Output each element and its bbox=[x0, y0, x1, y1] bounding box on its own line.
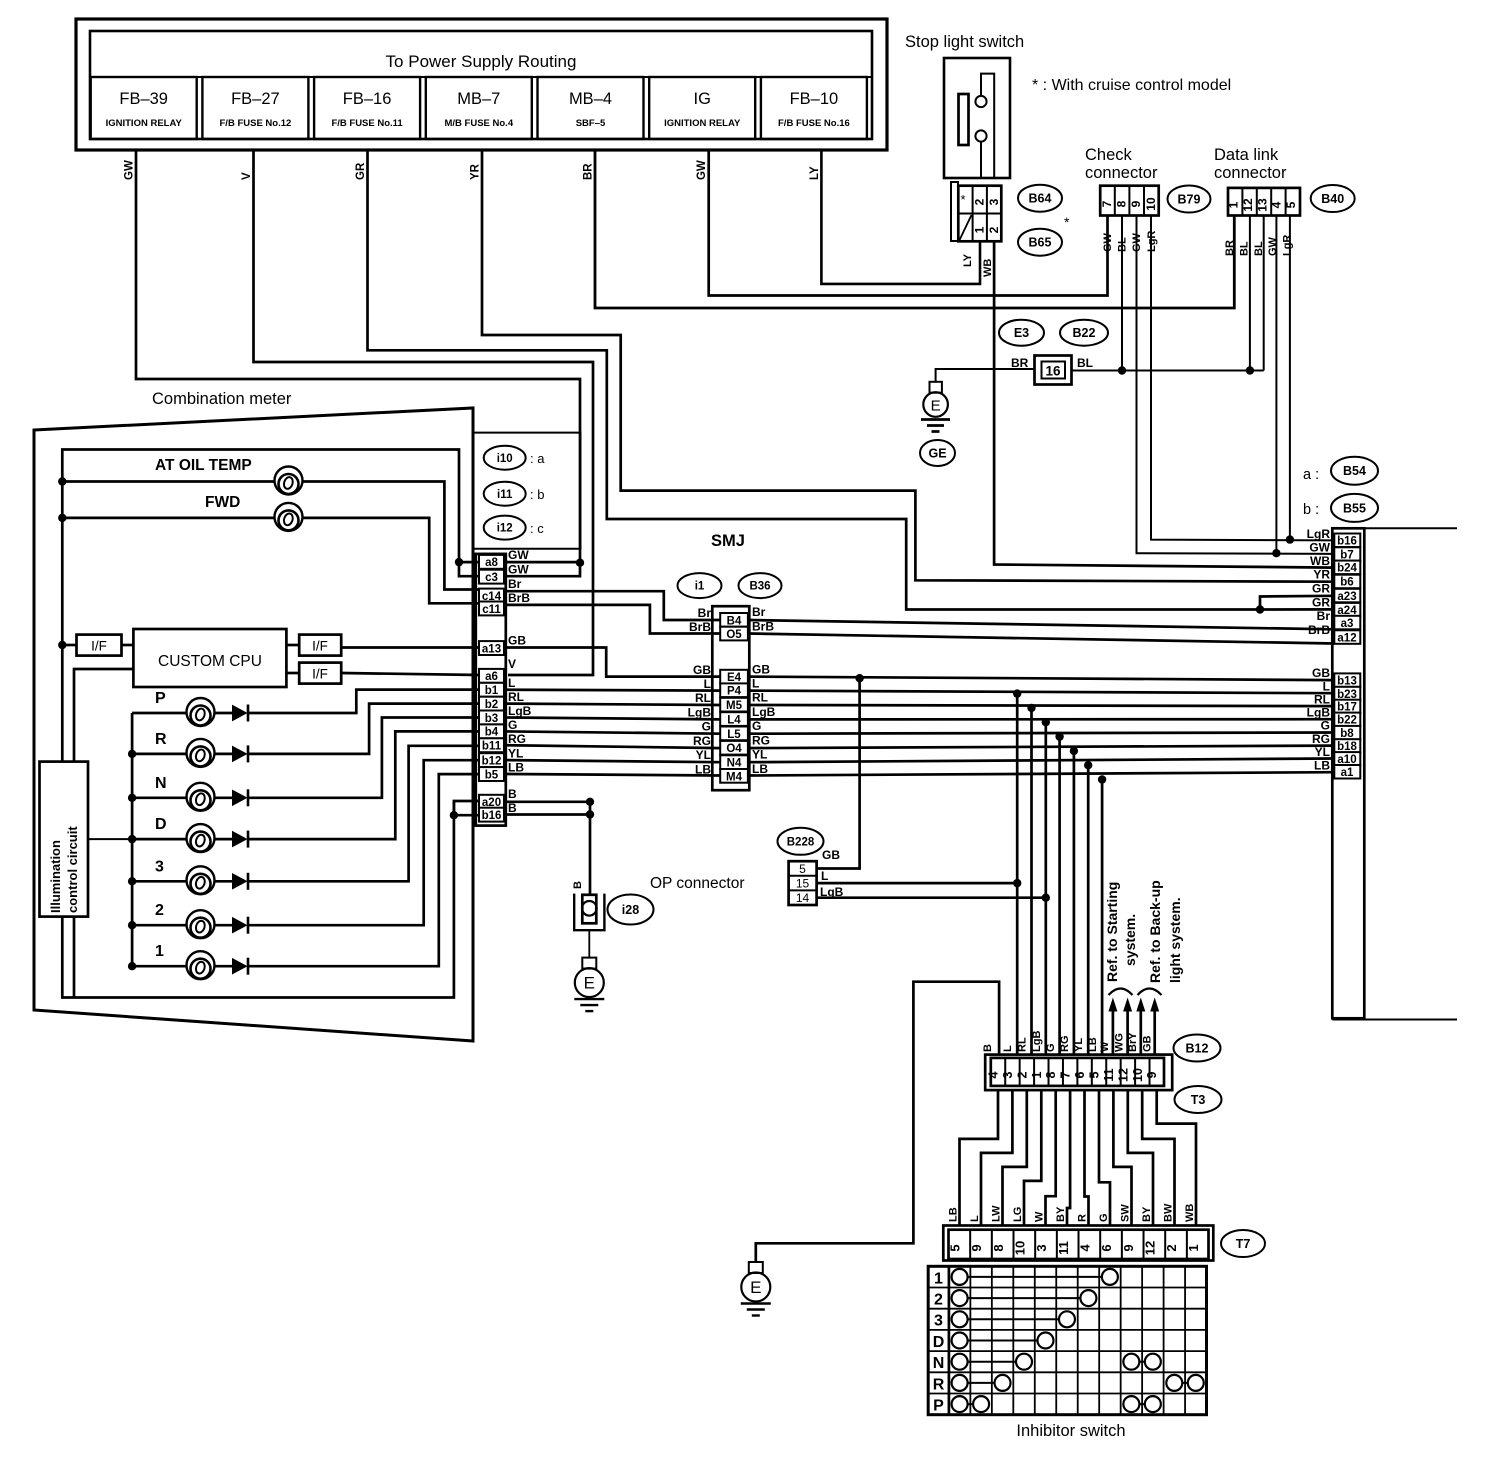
svg-text:5: 5 bbox=[799, 862, 806, 876]
svg-text:G: G bbox=[1045, 1043, 1057, 1052]
wire data link pin 4 GW bbox=[1275, 216, 1277, 554]
junction a8/c3 internal bbox=[455, 558, 463, 566]
svg-text:c11: c11 bbox=[482, 604, 501, 616]
lamp D bbox=[187, 824, 215, 852]
diode R bbox=[233, 745, 249, 762]
wire B down to lamp i28 bbox=[589, 802, 592, 894]
wire RG drop to B12 bbox=[1073, 751, 1076, 1055]
svg-text:1: 1 bbox=[1186, 1244, 1201, 1251]
svg-text:system.: system. bbox=[1122, 914, 1138, 966]
svg-text:V: V bbox=[508, 657, 516, 671]
wire meter to SMJ row bbox=[504, 760, 722, 762]
wire P row bbox=[132, 712, 186, 715]
wire data link pin 12 BL bbox=[1249, 216, 1251, 371]
junction GW power bbox=[576, 559, 584, 567]
svg-text:b7: b7 bbox=[1340, 549, 1353, 561]
terminal b12 bbox=[479, 753, 504, 767]
svg-text:CUSTOM CPU: CUSTOM CPU bbox=[158, 653, 262, 670]
illumination control circuit box bbox=[40, 762, 89, 917]
svg-text:a :: a : bbox=[1303, 467, 1319, 483]
svg-text:B12: B12 bbox=[1186, 1042, 1209, 1056]
wire V from FB-27 bbox=[254, 150, 594, 675]
svg-text:E4: E4 bbox=[727, 672, 742, 684]
svg-text:LgR: LgR bbox=[1282, 235, 1294, 256]
junction b16 B bbox=[450, 811, 458, 819]
connector id B64 bbox=[1018, 185, 1062, 212]
svg-text:RL: RL bbox=[752, 691, 768, 705]
junction LgB drop bbox=[1042, 894, 1050, 902]
connector id B22 bbox=[1060, 320, 1108, 346]
svg-text:GB: GB bbox=[693, 663, 711, 677]
inhibitor contacts row 1 bbox=[960, 1276, 1110, 1278]
svg-text:b13: b13 bbox=[1337, 675, 1357, 687]
svg-text:B: B bbox=[508, 787, 517, 801]
svg-text:BR: BR bbox=[583, 163, 595, 180]
svg-text:BL: BL bbox=[1238, 241, 1250, 256]
connector id B65 bbox=[1018, 229, 1062, 256]
wire data link pin 13 BL bbox=[1263, 216, 1265, 371]
svg-text:5: 5 bbox=[1284, 201, 1298, 208]
svg-text:: b: : b bbox=[530, 487, 544, 502]
svg-text:10: 10 bbox=[1131, 1068, 1145, 1082]
svg-text:LY: LY bbox=[809, 166, 821, 180]
svg-text:Br: Br bbox=[698, 606, 712, 620]
wire BrB SMJ to B54/B55 strip bbox=[748, 634, 1334, 644]
svg-text:BW: BW bbox=[1163, 1203, 1175, 1222]
terminal B4 bbox=[720, 613, 748, 627]
wire T3 pin to T7 (left fan 5) bbox=[1046, 1090, 1056, 1226]
svg-text:LB: LB bbox=[1314, 759, 1330, 773]
wire RL drop to B12 bbox=[1030, 708, 1033, 1055]
wire R row bbox=[132, 753, 186, 756]
wire lamp to diode 1 bbox=[215, 965, 233, 968]
svg-text:RL: RL bbox=[1017, 1037, 1029, 1052]
svg-text:16: 16 bbox=[1045, 364, 1061, 379]
wire T3 pin to T7 (right fan 2) bbox=[1113, 1090, 1131, 1226]
svg-text:LgB: LgB bbox=[688, 706, 712, 720]
wire GB SMJ to B54/B55 strip bbox=[748, 677, 1334, 681]
wire LgB drop to B12 bbox=[1044, 722, 1047, 1054]
connector id B55 bbox=[1331, 494, 1378, 522]
svg-text:b3: b3 bbox=[485, 713, 498, 725]
svg-text:i1: i1 bbox=[695, 581, 705, 593]
wire LgB SMJ to B54/B55 strip bbox=[748, 718, 1334, 721]
svg-text:W: W bbox=[1099, 1041, 1111, 1052]
fuse cell FB&#8211;10 bbox=[761, 77, 867, 139]
stop light switch contact wire bbox=[981, 74, 994, 178]
svg-text:D: D bbox=[155, 816, 167, 833]
svg-text:T3: T3 bbox=[1191, 1093, 1206, 1107]
terminal a1 bbox=[1334, 765, 1360, 779]
wire GR branch a23 bbox=[1260, 596, 1334, 610]
wire GR from FB-16 bbox=[368, 150, 1261, 610]
wire Br SMJ to B54/B55 strip bbox=[748, 620, 1334, 629]
svg-text:a1: a1 bbox=[1341, 767, 1354, 779]
right connector strip body bbox=[1332, 528, 1364, 1018]
ground E inhibitor bbox=[741, 1262, 771, 1316]
svg-text:2: 2 bbox=[987, 226, 1001, 233]
wire lamp to diode P bbox=[215, 712, 233, 715]
lamp FWD bbox=[275, 503, 303, 531]
svg-text:GW: GW bbox=[696, 160, 708, 180]
svg-text:BL: BL bbox=[1077, 356, 1093, 370]
svg-text:LB: LB bbox=[1087, 1037, 1099, 1052]
wire 1 row bbox=[132, 965, 186, 968]
svg-text:LB: LB bbox=[752, 762, 768, 776]
svg-text:3: 3 bbox=[1034, 1244, 1049, 1251]
wire T3 pin to T7 (left fan 2) bbox=[981, 1090, 1012, 1226]
svg-text:L: L bbox=[752, 677, 759, 691]
meter connector strip bbox=[476, 554, 506, 826]
terminal c11 bbox=[479, 602, 504, 616]
ground E meter illumination bbox=[574, 958, 604, 1012]
wire G drop to B12 bbox=[1058, 737, 1061, 1055]
svg-text:B79: B79 bbox=[1178, 193, 1201, 207]
svg-text:Br: Br bbox=[508, 577, 522, 591]
svg-text:SBF–5: SBF–5 bbox=[576, 118, 606, 129]
terminal b16 bbox=[1334, 534, 1360, 548]
fuse cell FB&#8211;27 bbox=[202, 77, 308, 139]
power supply routing box bbox=[76, 19, 887, 150]
svg-text:G: G bbox=[702, 720, 711, 734]
diode 1 bbox=[233, 958, 249, 975]
terminal b17 bbox=[1334, 700, 1360, 714]
stop light switch body bbox=[944, 58, 1010, 178]
svg-text:RG: RG bbox=[752, 734, 770, 748]
svg-text:GB: GB bbox=[508, 634, 526, 648]
junction LgR bbox=[1286, 535, 1294, 543]
junction bus R bbox=[128, 750, 136, 758]
svg-text:7: 7 bbox=[1059, 1071, 1073, 1078]
fuse cell MB&#8211;4 bbox=[538, 77, 644, 139]
wire I/F1 to a13 bbox=[341, 646, 479, 649]
wire BL from 16 to data link bbox=[1072, 370, 1264, 372]
svg-text:YL: YL bbox=[508, 747, 523, 761]
check connector B79 bbox=[1100, 186, 1159, 216]
svg-text:5: 5 bbox=[1088, 1071, 1102, 1078]
connector id i11 bbox=[484, 482, 526, 506]
stop light switch contact circle 1 bbox=[975, 96, 986, 107]
svg-text:3: 3 bbox=[934, 1313, 943, 1330]
svg-text:FB–27: FB–27 bbox=[231, 90, 280, 108]
wire 3 row bbox=[132, 880, 186, 883]
svg-text:M4: M4 bbox=[726, 771, 743, 783]
svg-text:i28: i28 bbox=[622, 903, 639, 917]
svg-text:6: 6 bbox=[1099, 1244, 1114, 1251]
inline connector 16 bbox=[1035, 356, 1072, 385]
terminal b22 bbox=[1334, 713, 1360, 727]
diode P bbox=[233, 705, 249, 722]
svg-text:B228: B228 bbox=[787, 836, 815, 848]
svg-text:5: 5 bbox=[948, 1244, 963, 1251]
svg-text:L: L bbox=[1002, 1045, 1014, 1052]
svg-text:3: 3 bbox=[1001, 1071, 1015, 1078]
svg-text:LB: LB bbox=[948, 1207, 960, 1222]
wire diode 1 to b5 bbox=[248, 774, 479, 966]
svg-text:YL: YL bbox=[752, 748, 767, 762]
svg-text:* : With cruise control model: * : With cruise control model bbox=[1032, 77, 1231, 94]
svg-text:b22: b22 bbox=[1337, 715, 1357, 727]
svg-text:D: D bbox=[933, 1334, 945, 1351]
svg-text:2: 2 bbox=[973, 198, 987, 205]
svg-text:LgR: LgR bbox=[1307, 527, 1331, 541]
wire b16 B external bbox=[504, 813, 590, 816]
terminal a12 bbox=[1334, 630, 1360, 644]
inhibitor contacts row D bbox=[960, 1340, 1046, 1342]
lamp P bbox=[187, 698, 215, 726]
svg-text:12: 12 bbox=[1116, 1068, 1130, 1082]
wire diode N to b3 bbox=[248, 718, 479, 798]
strip bottom stub line bbox=[1332, 1019, 1457, 1021]
svg-text:13: 13 bbox=[1255, 198, 1269, 212]
svg-text:RG: RG bbox=[1312, 732, 1330, 746]
svg-text:I/F: I/F bbox=[91, 639, 107, 654]
svg-text:RG: RG bbox=[693, 734, 711, 748]
svg-text:WB: WB bbox=[1310, 554, 1330, 568]
svg-text:b :: b : bbox=[1303, 502, 1319, 518]
svg-text:BR: BR bbox=[1011, 356, 1029, 370]
svg-text:GR: GR bbox=[355, 162, 367, 180]
wire a20 B external bbox=[504, 800, 590, 803]
junction bus bbox=[58, 514, 66, 522]
svg-text:YL: YL bbox=[696, 748, 711, 762]
svg-text:3: 3 bbox=[155, 858, 164, 875]
wire I/F to CPU bbox=[122, 644, 134, 647]
svg-text:GB: GB bbox=[752, 663, 770, 677]
connector id i10 bbox=[484, 446, 526, 470]
wire T3 pin to T7 (right fan 3) bbox=[1128, 1090, 1153, 1226]
wire T3 pin to T7 (left fan 1) bbox=[960, 1090, 999, 1226]
terminal b24 bbox=[1334, 561, 1360, 575]
svg-text:FWD: FWD bbox=[205, 494, 240, 511]
svg-text:B: B bbox=[572, 881, 584, 889]
diode 2 bbox=[233, 917, 249, 934]
svg-text:Br: Br bbox=[752, 605, 766, 619]
svg-text:light system.: light system. bbox=[1167, 897, 1183, 983]
svg-text:a3: a3 bbox=[1341, 618, 1354, 630]
lamp bulb E near 16 bbox=[930, 382, 942, 393]
wire GR to a24 bbox=[1260, 608, 1334, 611]
svg-text:4: 4 bbox=[1078, 1244, 1093, 1252]
svg-text:Stop light switch: Stop light switch bbox=[905, 33, 1024, 51]
terminal b6 bbox=[1334, 575, 1360, 589]
junction check8-BL bbox=[1118, 366, 1126, 374]
svg-text:connector: connector bbox=[1085, 164, 1158, 182]
lamp 3 bbox=[187, 866, 215, 894]
wire check pin 10 LgR bbox=[1151, 216, 1334, 541]
svg-text:a6: a6 bbox=[485, 671, 498, 683]
wire B228-15 L bbox=[817, 882, 1018, 885]
svg-text:LW: LW bbox=[991, 1205, 1003, 1222]
ground id GE bbox=[920, 440, 955, 466]
junction bus 1 bbox=[128, 962, 136, 970]
svg-text:O5: O5 bbox=[726, 629, 742, 641]
svg-text:RL: RL bbox=[508, 690, 524, 704]
wire RG SMJ to B54/B55 strip bbox=[748, 746, 1334, 749]
svg-text:8: 8 bbox=[991, 1244, 1006, 1251]
svg-text:10: 10 bbox=[1013, 1241, 1028, 1255]
wire check pin 8 BL bbox=[1121, 216, 1123, 371]
terminal O5 bbox=[720, 627, 748, 641]
svg-text:G: G bbox=[1098, 1213, 1110, 1222]
svg-text:R: R bbox=[155, 731, 167, 748]
stop light switch contact wire 2 bbox=[980, 142, 982, 178]
junction GW bbox=[1272, 549, 1280, 557]
svg-text:RG: RG bbox=[1059, 1036, 1071, 1053]
strip top stub line bbox=[1364, 527, 1457, 529]
terminal M5 bbox=[720, 698, 748, 712]
bracket marks bbox=[1109, 989, 1133, 996]
wire check pin 9 GW bbox=[1137, 216, 1335, 554]
svg-text:FB–39: FB–39 bbox=[119, 90, 168, 108]
svg-text:GB: GB bbox=[1312, 666, 1330, 680]
svg-text:2: 2 bbox=[934, 1292, 943, 1309]
svg-text:BY: BY bbox=[1055, 1206, 1067, 1222]
svg-text:b5: b5 bbox=[485, 769, 499, 781]
svg-text:b24: b24 bbox=[1337, 563, 1357, 575]
junction bus D bbox=[128, 835, 136, 843]
wire lamp to diode 3 bbox=[215, 880, 233, 883]
svg-text:F/B FUSE No.12: F/B FUSE No.12 bbox=[220, 118, 292, 129]
interface box I/F right1 bbox=[299, 635, 341, 656]
terminal b3 bbox=[479, 711, 504, 725]
svg-text:b6: b6 bbox=[1340, 577, 1353, 589]
wire WB from stop light switch bbox=[994, 241, 1334, 567]
svg-text:RG: RG bbox=[508, 732, 526, 746]
wire AT OIL TEMP lamp row bbox=[62, 480, 274, 483]
terminal b11 bbox=[479, 738, 504, 752]
svg-text:12: 12 bbox=[1143, 1241, 1158, 1255]
svg-text:Combination meter: Combination meter bbox=[152, 390, 292, 408]
svg-text:c3: c3 bbox=[485, 572, 498, 584]
i10/i11/i12 legend box bbox=[473, 433, 581, 549]
connector B228 bbox=[789, 861, 817, 905]
wire data link pin 5 LgR bbox=[1289, 216, 1291, 540]
inhibitor contacts row 2 bbox=[960, 1297, 1089, 1299]
custom cpu U1 bbox=[133, 629, 286, 687]
inhibitor contacts row P bbox=[1131, 1403, 1152, 1405]
junction bus bbox=[58, 477, 66, 485]
interface box I/F right2 bbox=[299, 663, 341, 684]
svg-text:Illumination: Illumination bbox=[48, 840, 63, 913]
svg-text:P4: P4 bbox=[727, 686, 742, 698]
junction b16 B bbox=[586, 810, 594, 818]
stop light switch connector B64/B65 bbox=[951, 182, 958, 241]
svg-text:B36: B36 bbox=[749, 581, 770, 593]
wire diode P to b1 bbox=[248, 690, 479, 713]
wire I/F2 to a6 bbox=[341, 673, 479, 675]
terminal b8 bbox=[1334, 726, 1360, 740]
wire lamp to diode N bbox=[215, 796, 233, 799]
svg-text:GW: GW bbox=[508, 548, 529, 562]
svg-text:R: R bbox=[933, 1376, 945, 1393]
svg-text:GB: GB bbox=[822, 848, 840, 862]
svg-text:L: L bbox=[508, 676, 515, 690]
terminal b16 bbox=[479, 808, 504, 822]
junction YL bbox=[1084, 761, 1092, 769]
wire lamp to diode R bbox=[215, 753, 233, 756]
svg-text:3: 3 bbox=[987, 198, 1001, 205]
wire to b16 bbox=[454, 814, 479, 817]
inhibitor contacts row N bbox=[1131, 1361, 1152, 1363]
svg-text:b16: b16 bbox=[482, 810, 502, 822]
wire T3 pin to T7 (right fan 4) bbox=[1142, 1090, 1174, 1226]
terminal O4 bbox=[720, 741, 748, 755]
svg-text:GR: GR bbox=[1312, 582, 1330, 596]
wire LY from FB-10 bbox=[821, 150, 980, 284]
svg-text:1: 1 bbox=[155, 943, 164, 960]
wire N row bbox=[132, 796, 186, 799]
svg-text:control circuit: control circuit bbox=[65, 826, 80, 913]
connector id B54 bbox=[1331, 457, 1378, 485]
svg-text:b2: b2 bbox=[485, 699, 498, 711]
svg-text:E: E bbox=[750, 1278, 761, 1297]
svg-text:B65: B65 bbox=[1029, 236, 1052, 250]
connector keying diagonal bbox=[960, 215, 972, 240]
svg-text:i12: i12 bbox=[497, 523, 513, 535]
terminal P4 bbox=[720, 683, 748, 697]
wire diode 2 to b12 bbox=[248, 760, 479, 925]
svg-text:T7: T7 bbox=[1236, 1237, 1251, 1251]
diode N bbox=[233, 789, 249, 806]
wire c14 Br to SMJ B4 bbox=[504, 591, 722, 620]
interface box I/F left bbox=[77, 635, 122, 656]
svg-text:B54: B54 bbox=[1343, 464, 1366, 478]
wire YL SMJ to B54/B55 strip bbox=[748, 759, 1334, 763]
terminal b5 bbox=[479, 767, 504, 781]
svg-text:RL: RL bbox=[695, 691, 711, 705]
wire BR from E bulb to 16 bbox=[936, 369, 1035, 382]
svg-text:: c: : c bbox=[530, 521, 544, 536]
wire meter to SMJ row bbox=[504, 704, 722, 705]
wire B to B12 pin4 bbox=[756, 982, 999, 1262]
svg-text:b1: b1 bbox=[485, 685, 499, 697]
lamp N bbox=[187, 783, 215, 811]
svg-text:Ref. to Starting: Ref. to Starting bbox=[1104, 882, 1120, 982]
connector id i1 bbox=[678, 573, 722, 598]
svg-text:LgB: LgB bbox=[1307, 706, 1331, 720]
terminal b4 bbox=[479, 724, 504, 738]
svg-text:b12: b12 bbox=[482, 756, 502, 768]
svg-text:14: 14 bbox=[796, 891, 810, 905]
svg-text:15: 15 bbox=[796, 876, 810, 890]
svg-text:1: 1 bbox=[934, 1270, 943, 1287]
wire diode R to b2 bbox=[248, 704, 479, 754]
junction bus-I/F bbox=[58, 641, 66, 649]
wire B228-5 GB bbox=[817, 678, 860, 868]
terminal b7 bbox=[1334, 547, 1360, 561]
svg-text:YR: YR bbox=[470, 163, 482, 180]
junction data12-BL bbox=[1246, 366, 1254, 374]
svg-text:4: 4 bbox=[1270, 201, 1284, 208]
svg-text:L: L bbox=[969, 1215, 981, 1222]
wire B228-14 LgB bbox=[817, 896, 1046, 899]
terminal a24 bbox=[1334, 603, 1360, 617]
svg-text:BrB: BrB bbox=[1308, 623, 1330, 637]
terminal b2 bbox=[479, 697, 504, 711]
wire meter to SMJ row bbox=[504, 688, 722, 692]
connector id B79 bbox=[1168, 186, 1211, 213]
svg-text:AT OIL TEMP: AT OIL TEMP bbox=[155, 457, 252, 474]
svg-text:LgB: LgB bbox=[752, 705, 776, 719]
connector B12/T3 bbox=[985, 1055, 1172, 1091]
svg-text:GW: GW bbox=[1309, 541, 1330, 555]
wire RL SMJ to B54/B55 strip bbox=[748, 705, 1334, 706]
junction LgB bbox=[1042, 718, 1050, 726]
wire T3 pin to T7 (left fan 3) bbox=[1003, 1090, 1027, 1226]
wire meter to SMJ row bbox=[504, 774, 722, 776]
svg-text:1: 1 bbox=[1030, 1071, 1044, 1078]
